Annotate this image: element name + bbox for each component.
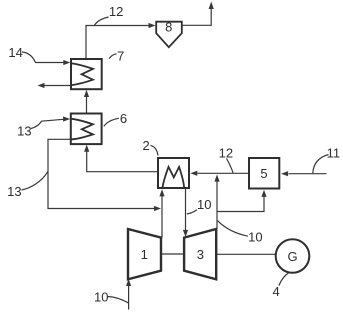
svg-text:2: 2 [143, 138, 150, 153]
svg-text:6: 6 [120, 111, 127, 126]
svg-text:12: 12 [219, 146, 233, 161]
svg-text:1: 1 [141, 247, 148, 262]
svg-text:4: 4 [273, 284, 280, 299]
svg-text:11: 11 [327, 146, 341, 161]
svg-text:14: 14 [8, 45, 22, 60]
svg-text:13: 13 [17, 124, 31, 139]
svg-text:G: G [287, 249, 297, 264]
svg-text:10: 10 [94, 289, 108, 304]
svg-text:7: 7 [117, 48, 124, 63]
svg-text:13: 13 [7, 184, 21, 199]
svg-text:10: 10 [248, 230, 262, 245]
svg-text:8: 8 [165, 20, 172, 35]
svg-text:12: 12 [109, 4, 123, 19]
svg-text:10: 10 [197, 197, 211, 212]
svg-text:5: 5 [260, 166, 267, 181]
svg-text:3: 3 [197, 247, 204, 262]
